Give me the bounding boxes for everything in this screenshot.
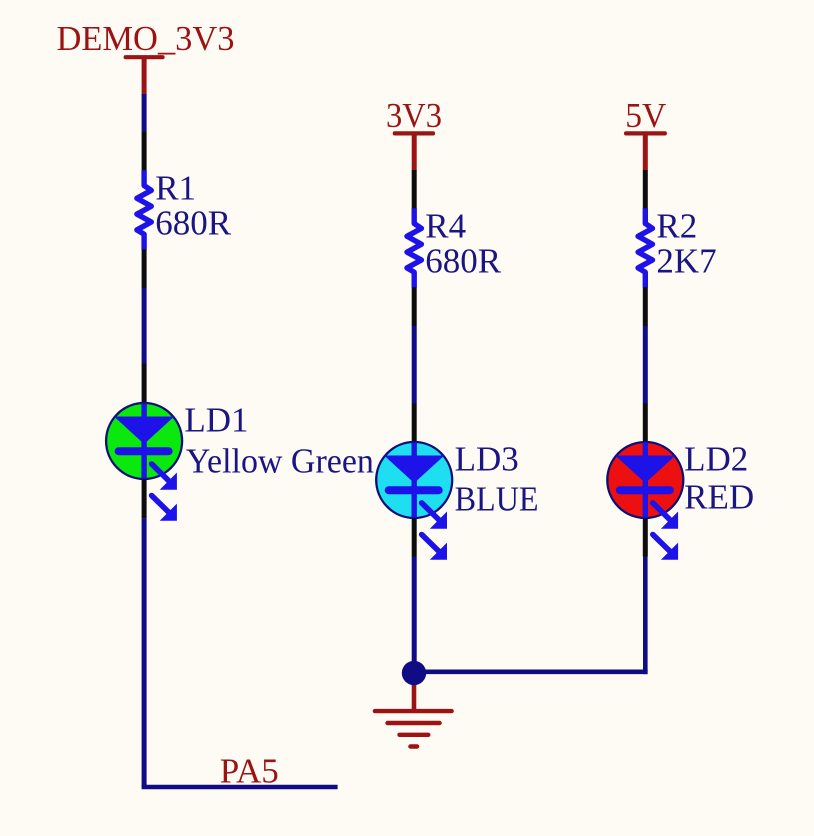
svg-text:RED: RED [684, 478, 754, 517]
power symbol 5V stem [643, 133, 648, 170]
svg-text:LD1: LD1 [184, 401, 248, 440]
svg-text:R4: R4 [425, 206, 466, 245]
LED LD2 pin 2 [643, 519, 648, 557]
LED LD3 pin 2 [412, 519, 417, 557]
svg-text:3V3: 3V3 [386, 96, 442, 135]
net label DEMO_3V3 [57, 19, 235, 58]
power symbol 5V bar [624, 131, 667, 135]
value Yellow Green [186, 441, 374, 480]
resistor R4 [407, 208, 421, 287]
value RED [684, 478, 754, 517]
ground symbol [373, 709, 454, 749]
svg-text:5V: 5V [625, 96, 666, 135]
LED LD1 pin 2 [142, 480, 147, 519]
label LD3 [455, 440, 519, 479]
label R1 [155, 168, 196, 207]
label R4 [425, 206, 466, 245]
power symbol 3V3 bar [393, 131, 435, 135]
resistor R1 pin 1 [142, 132, 147, 171]
value 680R (R4) [425, 242, 502, 281]
resistor R1 pin 2 [142, 249, 147, 288]
resistor R1 [137, 170, 151, 249]
wire LD2 to corner [643, 557, 648, 675]
wire LD3 to junction [412, 557, 417, 673]
svg-text:DEMO_3V3: DEMO_3V3 [57, 19, 235, 58]
resistor R2 pin 2 [643, 287, 648, 326]
wire junction to LD2 branch [414, 669, 648, 674]
svg-text:680R: 680R [425, 242, 502, 281]
LED LD3 light arrow 1 [422, 503, 447, 529]
value 2K7 [656, 242, 716, 281]
svg-text:R2: R2 [656, 206, 697, 245]
LED LD1 body [106, 403, 182, 479]
ground stem [412, 678, 417, 711]
LED LD2 pin 1 [643, 404, 648, 442]
wire power to R1 [142, 94, 147, 132]
resistor R4 pin 1 [412, 170, 417, 209]
net label PA5 [220, 751, 279, 790]
LED LD3 light arrow 2 [422, 535, 447, 560]
svg-text:R1: R1 [155, 168, 196, 207]
wire PA5 horizontal [142, 785, 338, 790]
LED LD2 light arrow 2 [653, 535, 678, 560]
svg-text:PA5: PA5 [220, 751, 279, 790]
resistor R4 pin 2 [412, 287, 417, 326]
net label 3V3 [386, 96, 442, 135]
net label 5V [625, 96, 666, 135]
resistor R2 pin 1 [643, 170, 648, 209]
label LD1 [184, 401, 248, 440]
LED LD1 pin 1 [142, 364, 147, 403]
svg-text:BLUE: BLUE [455, 480, 539, 519]
power symbol DEMO_3V3 stem [142, 57, 147, 95]
resistor R2 [638, 208, 652, 287]
power symbol 3V3 stem [412, 133, 417, 170]
wire LD1 to PA5 corner [142, 518, 147, 787]
wire R4 to LD3 [412, 326, 417, 404]
LED LD2 light arrow 1 [653, 503, 678, 529]
LED LD1 light arrow 1 [152, 464, 177, 490]
value BLUE [455, 480, 539, 519]
junction node [402, 661, 426, 685]
LED LD3 pin 1 [412, 404, 417, 442]
svg-text:2K7: 2K7 [656, 242, 716, 281]
LED LD1 light arrow 2 [152, 496, 177, 521]
svg-text:Yellow Green: Yellow Green [186, 441, 374, 480]
value 680R [155, 204, 232, 243]
wire R2 to LD2 [643, 326, 648, 404]
svg-text:LD2: LD2 [684, 440, 748, 479]
svg-text:680R: 680R [155, 204, 232, 243]
LED LD2 body [607, 442, 683, 518]
label R2 [656, 206, 697, 245]
LED LD3 body [376, 442, 452, 518]
label LD2 [684, 440, 748, 479]
svg-text:LD3: LD3 [455, 440, 519, 479]
wire R1 to LD1 [142, 288, 147, 364]
power symbol DEMO_3V3 bar [124, 55, 165, 59]
